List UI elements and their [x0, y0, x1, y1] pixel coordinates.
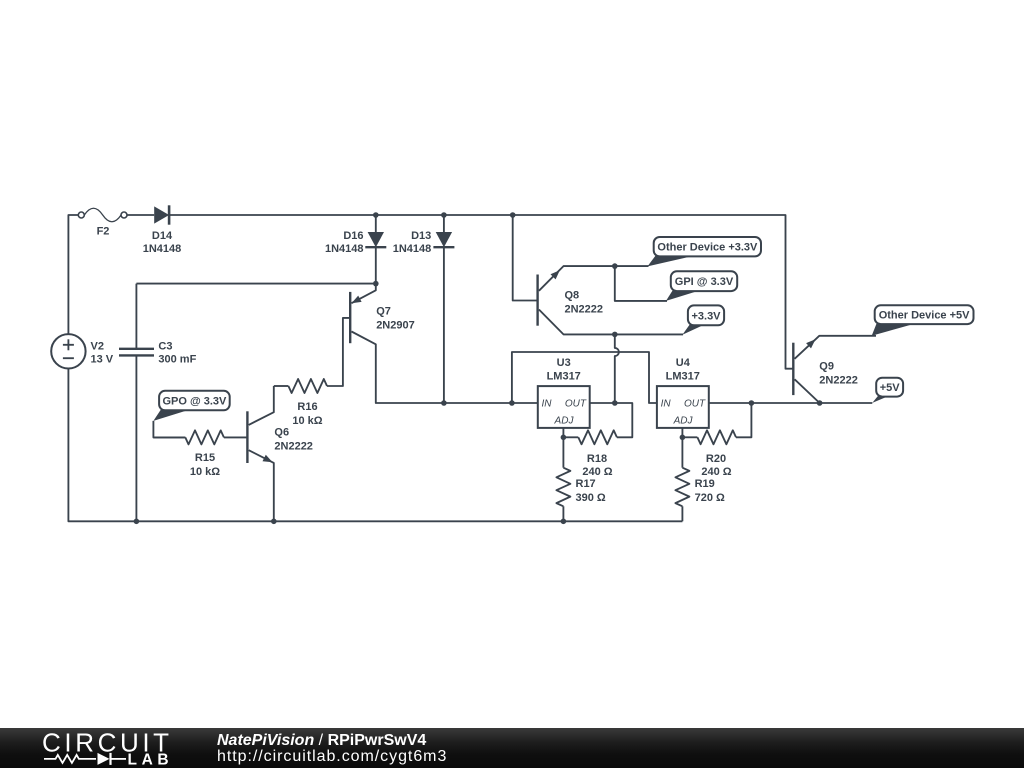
svg-text:Q7: Q7 — [376, 306, 391, 318]
svg-text:2N2222: 2N2222 — [565, 303, 604, 315]
svg-text:D13: D13 — [411, 230, 431, 242]
junction dot top rail at Q8 branch — [510, 212, 516, 218]
resistor R19 720 ohm — [675, 468, 725, 522]
svg-text:Q8: Q8 — [565, 289, 580, 301]
junction dot D16 / Q7 emitter — [373, 281, 379, 287]
svg-text:Q6: Q6 — [274, 427, 289, 439]
net flag Other Device +3.3V — [648, 237, 762, 266]
wire rail to U3 IN — [444, 402, 538, 404]
wire from V2 plus up and right to fuse — [68, 215, 78, 334]
svg-text:R19: R19 — [695, 478, 715, 490]
svg-text:1N4148: 1N4148 — [325, 243, 364, 255]
junction dot top rail at D16 — [373, 212, 379, 218]
svg-text:Q9: Q9 — [819, 361, 834, 373]
svg-text:LAB: LAB — [128, 751, 174, 768]
svg-text:F2: F2 — [97, 226, 110, 238]
wire R16 left to Q6 collector — [249, 386, 274, 425]
resistor R16 10 k — [274, 379, 327, 427]
resistor R18 240 ohm — [563, 430, 617, 478]
svg-text:V2: V2 — [91, 340, 104, 352]
svg-text:U4: U4 — [676, 357, 691, 369]
footer title text — [217, 732, 426, 750]
footer bar — [0, 728, 1024, 768]
svg-text:LM317: LM317 — [547, 371, 581, 383]
svg-text:+3.3V: +3.3V — [691, 310, 721, 322]
net flag GPI @ 3.3V — [666, 271, 737, 301]
svg-text:240 Ω: 240 Ω — [582, 466, 612, 478]
svg-text:10 kΩ: 10 kΩ — [292, 415, 322, 427]
resistor R20 240 ohm — [682, 430, 736, 478]
wire node C3 top to D16 anode — [136, 283, 375, 285]
diode D16 1N4148 — [325, 215, 386, 284]
junction dot Q9 collector on rail — [817, 400, 823, 406]
net flag +3.3V — [682, 305, 724, 334]
junction dot R17 bottom rail — [561, 519, 567, 525]
svg-text:OUT: OUT — [565, 399, 587, 410]
svg-text:R16: R16 — [297, 401, 317, 413]
svg-text:2N2907: 2N2907 — [376, 320, 415, 332]
wire V2 minus down to bottom rail — [68, 369, 682, 522]
wire Q8 branch vertical — [513, 215, 538, 301]
wire branch over U3 to U4 IN — [512, 352, 657, 403]
wire top rail D14 to right corner, down to Q9 base — [169, 215, 793, 369]
footer url text — [217, 748, 447, 766]
resistor R17 390 ohm — [556, 468, 606, 522]
IC U4 LM317 — [657, 357, 709, 428]
svg-text:GPO @ 3.3V: GPO @ 3.3V — [162, 396, 227, 408]
capacitor C3 300 mF — [119, 284, 197, 522]
svg-text:240 Ω: 240 Ω — [701, 466, 731, 478]
wire fuse to D14 — [127, 214, 154, 216]
svg-text:1N4148: 1N4148 — [393, 243, 432, 255]
junction dot U4 ADJ — [680, 435, 686, 441]
wire Q8 bottom to U3 OUT with hop over rail — [615, 334, 619, 403]
junction dot C3 on bottom rail — [134, 519, 140, 525]
wire U3 ADJ down — [562, 428, 564, 468]
svg-text:IN: IN — [542, 399, 553, 410]
IC U3 LM317 — [538, 357, 590, 428]
svg-text:2N2222: 2N2222 — [819, 374, 858, 386]
junction dot rail branch to U4 — [509, 400, 515, 406]
svg-text:C3: C3 — [158, 340, 172, 352]
transistor Q7 2N2907 — [327, 284, 444, 403]
svg-text:10 kΩ: 10 kΩ — [190, 466, 220, 478]
svg-text:D16: D16 — [343, 230, 363, 242]
svg-text:720 Ω: 720 Ω — [695, 492, 725, 504]
svg-text:U3: U3 — [557, 357, 571, 369]
diode D13 1N4148 — [393, 215, 455, 403]
junction dot Q8 top lead — [612, 263, 618, 269]
junction dot Q6 emitter on bottom rail — [271, 519, 277, 525]
junction dot U3 ADJ — [561, 435, 567, 441]
svg-text:D14: D14 — [152, 230, 173, 242]
svg-text:R18: R18 — [587, 453, 607, 465]
svg-text:1N4148: 1N4148 — [143, 243, 182, 255]
wire U4 ADJ down — [681, 428, 683, 468]
svg-text:R20: R20 — [706, 453, 726, 465]
junction dot top rail at D13 — [441, 212, 447, 218]
svg-text:R17: R17 — [576, 478, 596, 490]
voltage source V2 13 V — [51, 334, 114, 368]
wire GPO flag to R15 — [153, 421, 185, 438]
svg-text:+5V: +5V — [880, 382, 901, 394]
svg-text:Other Device +5V: Other Device +5V — [879, 310, 970, 322]
net flag GPO @ 3.3V — [153, 391, 229, 421]
net flag +5V — [872, 378, 903, 403]
junction dot D13 bottom / rail — [441, 400, 447, 406]
wire U4 OUT down to R20 — [736, 403, 751, 437]
svg-text:ADJ: ADJ — [554, 416, 575, 427]
svg-text:390 Ω: 390 Ω — [576, 492, 606, 504]
net flag Other Device +5V — [872, 305, 974, 336]
svg-text:ADJ: ADJ — [673, 416, 694, 427]
junction dot Q8 bottom lead — [612, 332, 618, 338]
svg-text:OUT: OUT — [684, 399, 706, 410]
svg-text:13 V: 13 V — [91, 353, 114, 365]
junction dot U4 OUT — [749, 400, 755, 406]
diode D14 1N4148 — [143, 205, 182, 255]
svg-text:2N2222: 2N2222 — [274, 441, 313, 453]
fuse F2 — [78, 208, 127, 237]
svg-text:300 mF: 300 mF — [158, 353, 196, 365]
svg-text:Other Device +3.3V: Other Device +3.3V — [657, 242, 758, 254]
svg-text:R15: R15 — [195, 452, 215, 464]
resistor R15 10 k — [153, 430, 247, 478]
junction dot U3 OUT — [612, 400, 618, 406]
svg-text:GPI @ 3.3V: GPI @ 3.3V — [675, 276, 734, 288]
transistor Q6 2N2222 — [247, 411, 313, 521]
wire U3 OUT to R18 top — [590, 403, 633, 437]
wire to GPI flag — [615, 266, 667, 301]
CircuitLab logo — [0, 728, 200, 768]
svg-text:IN: IN — [661, 399, 672, 410]
transistor Q8 2N2222 — [538, 266, 683, 334]
wire U4 OUT rail to +5V — [709, 402, 873, 404]
transistor Q9 2N2222 — [793, 336, 876, 403]
svg-text:LM317: LM317 — [666, 371, 700, 383]
